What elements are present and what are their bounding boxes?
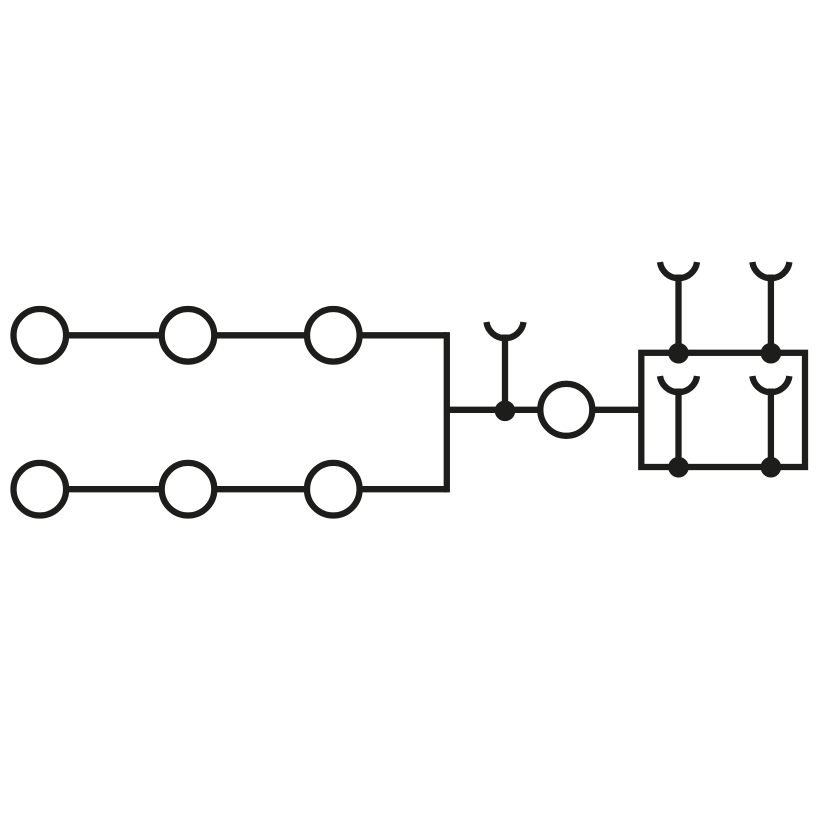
terminal circle T7 (disconnect point on main wire) (540, 384, 592, 436)
junction dot J1 (495, 401, 516, 422)
wire: top row horizontal bus y=335.3 (40, 332, 447, 338)
plug contact fork P1 (upper left, above box) (660, 262, 697, 278)
wire: stem of inner-left plug contact (675, 389, 681, 468)
wire: bottom row horizontal bus y=489.2 (40, 486, 447, 492)
wire: stem of inner-right plug contact (768, 389, 774, 468)
terminal circle T4 (bottom row, left) (14, 463, 67, 516)
terminal circle T1 (top row, left) (14, 309, 67, 362)
plug connector box (641, 353, 805, 467)
wire: vertical bridge joining top and bottom buses (444, 332, 450, 492)
junction dot on box top edge, left (668, 343, 689, 364)
terminal circle T6 (bottom row, right) (307, 463, 360, 516)
junction dot on box bottom edge, right (761, 457, 782, 478)
junction dot on box bottom edge, left (668, 457, 689, 478)
terminal circle T3 (top row, right) (307, 309, 360, 362)
plug contact fork P4 (inside box, right) (752, 376, 789, 392)
terminal circle T5 (bottom row, middle) (162, 463, 215, 516)
test socket fork F1 above node J1 (486, 322, 523, 338)
wire: test-tap stem at node J1 (502, 335, 508, 410)
wire: main output wire to plug box (447, 407, 642, 413)
junction dot on box top edge, right (761, 343, 782, 364)
plug contact fork P2 (upper right, above box) (752, 262, 789, 278)
terminal circle T2 (top row, middle) (162, 309, 215, 362)
wire: stem of upper-left plug contact (675, 275, 681, 354)
wire: stem of upper-right plug contact (768, 275, 774, 354)
plug contact fork P3 (inside box, left) (660, 376, 697, 392)
